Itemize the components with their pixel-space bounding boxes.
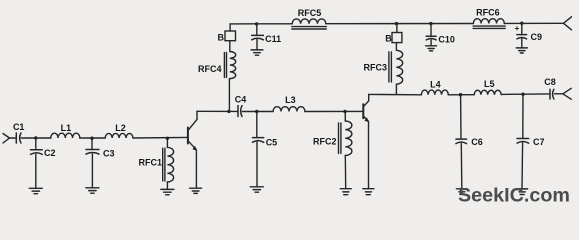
svg-text:C3: C3 xyxy=(103,149,115,159)
wire xyxy=(91,138,93,149)
ground (C5) xyxy=(250,187,263,192)
wire xyxy=(395,84,397,94)
RFC6 core xyxy=(473,26,505,28)
wire xyxy=(430,40,432,46)
wire xyxy=(555,93,563,95)
inductor RFC4 xyxy=(230,52,236,79)
ground (Q2 emitter) xyxy=(363,189,374,195)
svg-text:L5: L5 xyxy=(484,79,495,89)
node (RFC1 tap) xyxy=(166,137,169,140)
inductor RFC2 xyxy=(345,121,352,155)
capacitor C4 xyxy=(238,106,242,117)
inductor L5 xyxy=(474,90,501,94)
wire xyxy=(80,137,105,139)
capacitor C6 xyxy=(456,139,467,144)
capacitor C10 xyxy=(426,36,436,40)
wire xyxy=(344,156,346,189)
svg-text:C4: C4 xyxy=(235,94,247,104)
wire (top rail) xyxy=(230,22,563,25)
capacitor C1 xyxy=(16,133,21,143)
wire xyxy=(35,154,37,188)
svg-text:C7: C7 xyxy=(533,137,545,147)
svg-text:B: B xyxy=(218,32,225,42)
ground (Q1 emitter) xyxy=(190,188,202,193)
svg-text:L2: L2 xyxy=(115,123,126,133)
wire xyxy=(460,144,463,189)
inductor L4 xyxy=(421,90,448,95)
wire xyxy=(91,154,93,188)
RFC1 core xyxy=(163,148,165,181)
node (C7 tap) xyxy=(521,93,524,96)
inductor RFC1 xyxy=(167,147,173,182)
inductor RFC5 xyxy=(292,19,326,24)
wire xyxy=(396,24,398,33)
inductor L1 xyxy=(51,133,80,138)
wire (Q2 collector / output line) xyxy=(369,93,550,96)
svg-text:C9: C9 xyxy=(531,32,543,42)
wire xyxy=(166,138,168,147)
ground (RFC1) xyxy=(161,189,174,194)
wire xyxy=(133,136,187,139)
svg-text:L3: L3 xyxy=(285,95,296,105)
output terminal (top rail) xyxy=(564,17,572,30)
ground (C3) xyxy=(86,188,99,193)
svg-text:RFC2: RFC2 xyxy=(313,137,337,147)
node (L1/C3 junction) xyxy=(90,137,93,140)
wire xyxy=(21,137,51,139)
svg-text:C8: C8 xyxy=(544,77,556,87)
wire xyxy=(256,112,258,138)
wire xyxy=(521,143,524,189)
wire xyxy=(256,24,258,35)
svg-text:RFC1: RFC1 xyxy=(139,158,163,168)
ground (C11) xyxy=(251,50,263,55)
svg-text:C1: C1 xyxy=(13,122,25,132)
capacitor C9 (electrolytic) xyxy=(517,35,527,39)
wire xyxy=(522,94,524,138)
input terminal J1 xyxy=(3,134,10,144)
ground (C9) xyxy=(516,48,527,53)
capacitor C8 xyxy=(550,89,554,99)
svg-text:C2: C2 xyxy=(44,148,56,158)
svg-text:RFC6: RFC6 xyxy=(476,8,500,18)
RFC5 core xyxy=(292,27,327,29)
ground (RFC2) xyxy=(340,189,351,195)
node (RFC2 tap) xyxy=(343,110,346,113)
RFC4 core xyxy=(224,53,226,78)
wire xyxy=(228,79,230,112)
capacitor C3 xyxy=(86,150,99,155)
ground (C10) xyxy=(426,46,437,51)
wire xyxy=(256,40,258,50)
node (C6 tap) xyxy=(459,93,462,96)
wire xyxy=(35,138,37,150)
svg-text:C5: C5 xyxy=(266,138,278,148)
wire xyxy=(395,43,397,51)
wire xyxy=(166,182,168,189)
RFC2 core xyxy=(339,123,341,153)
output terminal (bottom) xyxy=(563,88,572,99)
wire xyxy=(10,137,16,139)
node (C11 tap) xyxy=(255,22,258,25)
capacitor C2 xyxy=(31,150,43,155)
wire xyxy=(242,111,273,113)
svg-text:RFC5: RFC5 xyxy=(298,8,322,18)
ground (C7) xyxy=(517,189,528,195)
bead B2 xyxy=(392,33,402,43)
node (B2 tap) xyxy=(395,22,398,25)
capacitor C5 xyxy=(253,138,264,143)
transistor Q1 xyxy=(188,111,197,188)
svg-text:B: B xyxy=(385,34,392,44)
node (C10 tap) xyxy=(429,22,432,25)
capacitor C11 xyxy=(252,35,264,39)
wire xyxy=(256,142,258,186)
node (C1/C2 junction) xyxy=(34,136,37,139)
node (C9 tap) xyxy=(520,22,523,25)
bead B1 xyxy=(225,31,236,41)
svg-text:RFC3: RFC3 xyxy=(364,63,388,73)
node (C5 tap) xyxy=(255,110,258,113)
ground (C6) xyxy=(456,189,467,195)
wire xyxy=(521,39,523,48)
inductor RFC3 xyxy=(396,50,402,84)
svg-text:SeekIC.com: SeekIC.com xyxy=(458,186,570,207)
node (RFC4 tap) xyxy=(227,110,230,113)
svg-text:L4: L4 xyxy=(430,80,441,90)
inductor RFC6 xyxy=(473,19,504,24)
wire xyxy=(521,23,523,34)
wire xyxy=(344,112,346,122)
wire xyxy=(430,24,432,36)
ground (C2) xyxy=(29,188,42,193)
wire xyxy=(305,110,363,112)
svg-text:L1: L1 xyxy=(61,123,72,133)
svg-text:C6: C6 xyxy=(471,137,483,147)
svg-text:C10: C10 xyxy=(438,34,455,44)
wire xyxy=(229,41,231,52)
svg-text:C11: C11 xyxy=(265,34,281,44)
wire xyxy=(460,95,462,139)
RFC3 core xyxy=(389,52,392,82)
inductor L3 xyxy=(273,107,305,112)
wire xyxy=(229,24,231,31)
svg-text:+: + xyxy=(515,24,520,33)
inductor L2 xyxy=(105,133,133,138)
wire (Q1 collector line) xyxy=(197,110,238,112)
svg-text:RFC4: RFC4 xyxy=(198,64,222,74)
transistor Q2 xyxy=(363,94,369,188)
capacitor C7 xyxy=(517,139,529,144)
